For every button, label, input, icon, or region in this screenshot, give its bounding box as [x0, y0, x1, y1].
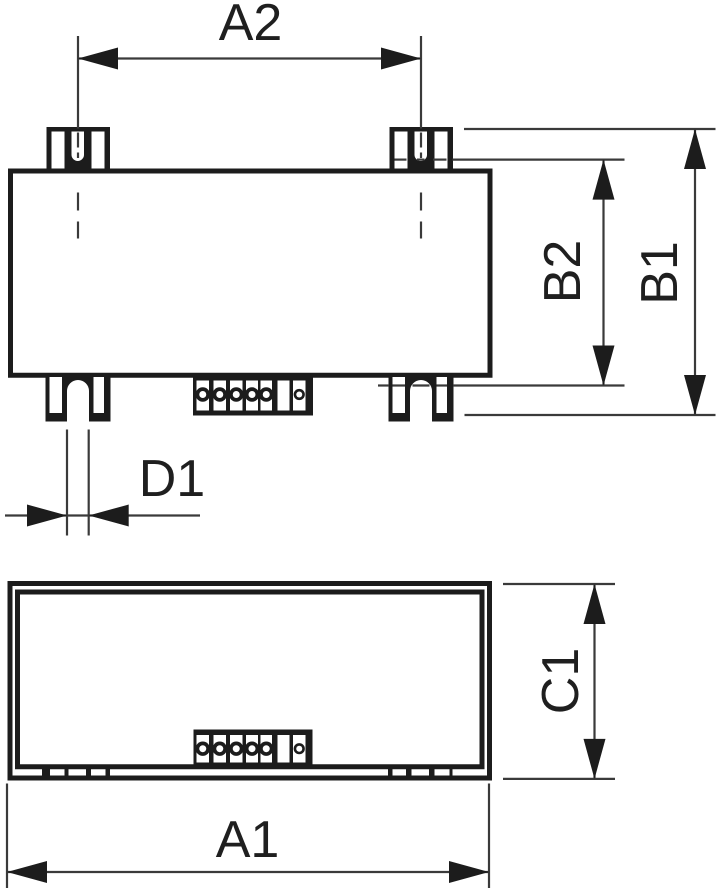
svg-text:A2: A2	[219, 0, 283, 52]
svg-text:D1: D1	[139, 450, 205, 508]
svg-text:B1: B1	[631, 241, 689, 305]
svg-text:B2: B2	[534, 240, 592, 304]
svg-text:A1: A1	[216, 811, 280, 869]
svg-text:C1: C1	[532, 648, 590, 714]
